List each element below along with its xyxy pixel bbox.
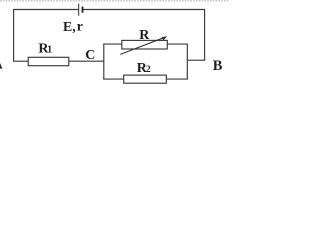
- wire: top branch right: [167, 43, 188, 45]
- svg-text:R2: R2: [137, 61, 151, 76]
- wire: top branch left: [103, 43, 122, 45]
- resistor R2 box: [124, 75, 167, 83]
- wire: right bar to node B: [187, 59, 205, 61]
- resistor R1 box: [28, 57, 69, 65]
- svg-text:B: B: [213, 58, 223, 74]
- wire: right bar of parallel section: [186, 44, 188, 79]
- rheostat arrow: [120, 36, 167, 54]
- wire: left bar of parallel section: [103, 44, 105, 79]
- svg-text:C: C: [85, 48, 95, 63]
- battery E,r long plate: [78, 4, 80, 16]
- rheostat R box: [122, 40, 168, 49]
- wire: bottom branch left: [103, 78, 124, 80]
- wire: bottom branch right: [166, 78, 188, 80]
- svg-text:r: r: [77, 19, 83, 34]
- wire: top left segment to battery: [14, 10, 79, 62]
- battery E,r short plate: [82, 7, 84, 13]
- wire: battery to top right corner, down right side: [83, 10, 204, 61]
- svg-text:R1: R1: [38, 41, 52, 56]
- svg-text:R: R: [139, 28, 150, 43]
- wire: bottom left horizontal A to R1: [13, 60, 28, 62]
- svg-text:E,: E,: [63, 19, 76, 34]
- dashed border line (top of figure): [0, 0, 229, 2]
- svg-text:A: A: [0, 57, 4, 72]
- wire: R1 to node C / left bar: [69, 60, 105, 62]
